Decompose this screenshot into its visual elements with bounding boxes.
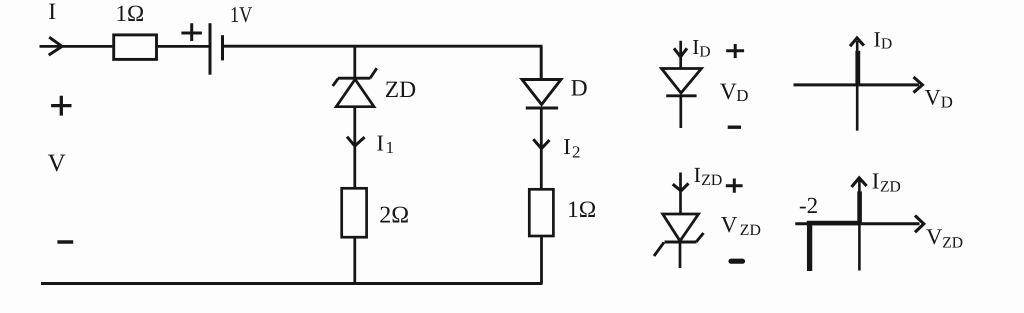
svg-text:V: V: [721, 212, 738, 237]
svg-text:ZD: ZD: [740, 222, 761, 239]
svg-text:ZD: ZD: [701, 172, 722, 189]
svg-text:I: I: [872, 169, 880, 194]
svg-text:I: I: [376, 131, 384, 156]
svg-text:1: 1: [386, 138, 394, 157]
svg-text:2: 2: [572, 143, 580, 162]
svg-text:I: I: [48, 0, 56, 25]
svg-text:I: I: [692, 35, 699, 59]
svg-text:I: I: [563, 134, 571, 159]
svg-text:D: D: [881, 36, 892, 53]
svg-text:-2: -2: [799, 193, 818, 218]
svg-text:2Ω: 2Ω: [379, 202, 409, 228]
svg-text:V: V: [720, 79, 737, 105]
svg-text:D: D: [699, 43, 710, 60]
svg-text:V: V: [926, 224, 942, 249]
svg-text:1V: 1V: [230, 2, 252, 27]
svg-text:I: I: [874, 28, 881, 52]
svg-text:ZD: ZD: [385, 77, 416, 103]
svg-text:V: V: [925, 85, 941, 110]
svg-text:ZD: ZD: [942, 235, 963, 252]
svg-text:V: V: [48, 150, 66, 177]
svg-text:D: D: [571, 76, 588, 102]
svg-text:D: D: [941, 93, 953, 112]
svg-text:ZD: ZD: [880, 179, 901, 196]
svg-text:1Ω: 1Ω: [567, 197, 596, 223]
svg-text:D: D: [736, 86, 748, 105]
svg-text:1Ω: 1Ω: [115, 1, 144, 27]
svg-text:I: I: [694, 163, 701, 187]
